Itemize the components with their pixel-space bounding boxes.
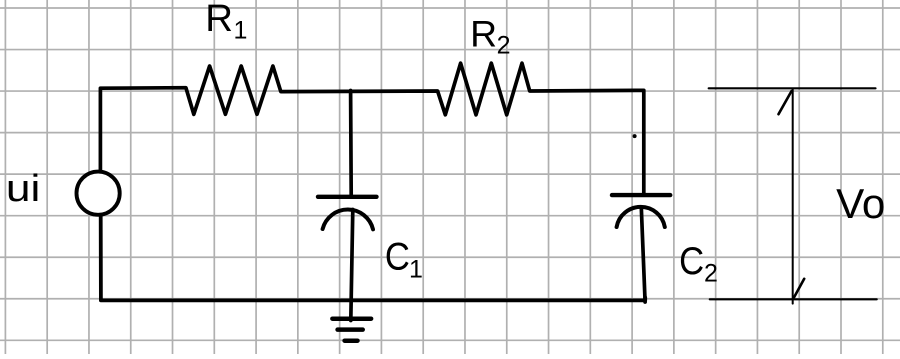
svg-text:Vo: Vo (836, 180, 885, 227)
svg-text:2: 2 (704, 260, 718, 288)
svg-text:ui: ui (6, 167, 41, 210)
svg-text:1: 1 (234, 16, 248, 44)
svg-text:2: 2 (497, 31, 511, 59)
svg-text:R: R (470, 12, 497, 54)
svg-text:R: R (205, 0, 233, 40)
svg-text:1: 1 (409, 255, 423, 283)
svg-text:C: C (385, 236, 410, 279)
svg-text:C: C (679, 240, 704, 283)
